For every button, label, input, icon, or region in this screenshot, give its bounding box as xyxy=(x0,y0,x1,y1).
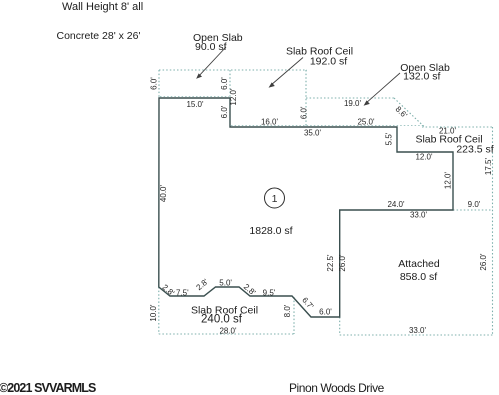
svg-text:1828.0 sf: 1828.0 sf xyxy=(249,225,292,237)
svg-text:Pinon Woods Drive: Pinon Woods Drive xyxy=(289,381,385,395)
svg-text:7.5': 7.5' xyxy=(176,289,189,298)
svg-text:12.0': 12.0' xyxy=(415,153,433,162)
svg-text:33.0': 33.0' xyxy=(410,211,428,220)
svg-text:223.5 sf: 223.5 sf xyxy=(456,144,493,156)
svg-text:10.0': 10.0' xyxy=(149,304,158,322)
svg-text:26.0': 26.0' xyxy=(338,254,347,272)
svg-text:24.0': 24.0' xyxy=(387,200,405,209)
svg-text:17.5': 17.5' xyxy=(484,157,493,175)
svg-text:16.0': 16.0' xyxy=(261,118,279,127)
svg-text:192.0 sf: 192.0 sf xyxy=(310,56,347,68)
svg-text:6.0': 6.0' xyxy=(220,77,229,90)
svg-text:5.5': 5.5' xyxy=(385,132,394,145)
svg-text:1: 1 xyxy=(272,193,278,205)
svg-text:15.0': 15.0' xyxy=(186,100,204,109)
svg-text:35.0': 35.0' xyxy=(304,129,322,138)
svg-text:858.0 sf: 858.0 sf xyxy=(400,271,437,283)
svg-text:Concrete 28' x 26': Concrete 28' x 26' xyxy=(57,30,141,42)
svg-text:21.0': 21.0' xyxy=(439,127,457,136)
svg-text:33.0': 33.0' xyxy=(409,326,427,335)
svg-text:Wall Height 8' all: Wall Height 8' all xyxy=(62,1,143,13)
svg-text:28.0': 28.0' xyxy=(219,327,237,336)
svg-text:240.0 sf: 240.0 sf xyxy=(201,314,243,326)
svg-text:5.0': 5.0' xyxy=(219,279,232,288)
svg-text:6.0': 6.0' xyxy=(300,106,309,119)
svg-text:9.5': 9.5' xyxy=(263,289,276,298)
svg-text:19.0': 19.0' xyxy=(344,99,362,108)
svg-text:26.0': 26.0' xyxy=(479,253,488,271)
svg-text:6.0': 6.0' xyxy=(220,105,229,118)
svg-text:90.0 sf: 90.0 sf xyxy=(195,41,227,53)
svg-text:Attached: Attached xyxy=(398,258,440,270)
svg-text:12.0': 12.0' xyxy=(229,88,238,106)
svg-text:6.0': 6.0' xyxy=(319,308,332,317)
svg-text:©2021 SVVARMLS: ©2021 SVVARMLS xyxy=(0,381,96,395)
svg-text:6.0': 6.0' xyxy=(150,77,159,90)
svg-text:9.0': 9.0' xyxy=(468,200,481,209)
svg-text:132.0 sf: 132.0 sf xyxy=(403,71,440,83)
svg-text:25.0': 25.0' xyxy=(357,118,375,127)
svg-text:8.0': 8.0' xyxy=(283,304,292,317)
svg-text:40.0': 40.0' xyxy=(159,184,168,202)
svg-text:22.5': 22.5' xyxy=(326,254,335,272)
svg-text:12.0': 12.0' xyxy=(444,171,453,189)
